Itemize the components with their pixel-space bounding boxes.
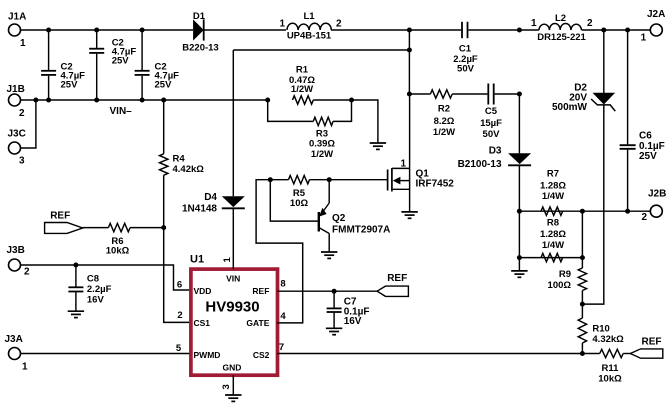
svg-text:J1B: J1B <box>7 84 25 95</box>
capacitor C6 0.1uF 25V <box>620 144 636 146</box>
node junction <box>407 48 412 53</box>
wire <box>519 29 539 31</box>
svg-text:2: 2 <box>177 310 182 321</box>
ground <box>401 211 417 213</box>
capacitor C2 (middle) 4.7uF 25V <box>96 30 98 48</box>
svg-text:1/2W: 1/2W <box>291 84 313 95</box>
svg-text:1/4W: 1/4W <box>542 191 564 202</box>
svg-text:25V: 25V <box>112 55 130 66</box>
capacitor C1 2.2uF 50V <box>461 22 463 38</box>
svg-text:J3A: J3A <box>5 334 23 345</box>
svg-text:DR125-221: DR125-221 <box>537 32 586 43</box>
node junction <box>580 209 585 214</box>
svg-text:1: 1 <box>22 362 28 373</box>
svg-text:5: 5 <box>176 343 182 354</box>
svg-text:VIN: VIN <box>226 274 240 284</box>
svg-text:25V: 25V <box>61 80 79 91</box>
svg-text:2: 2 <box>19 108 25 119</box>
resistor R9 100ohm <box>578 268 586 291</box>
node junction <box>625 28 630 33</box>
svg-text:R9: R9 <box>559 269 571 280</box>
svg-text:R11: R11 <box>602 363 620 374</box>
resistor R6 10kohm <box>108 223 130 231</box>
resistor R11 10kohm <box>582 353 599 355</box>
svg-text:U1: U1 <box>190 254 204 266</box>
wire <box>277 290 377 292</box>
svg-text:100Ω: 100Ω <box>548 280 572 291</box>
wire <box>232 375 234 395</box>
wire <box>519 257 582 259</box>
svg-text:PWMD: PWMD <box>194 350 221 360</box>
svg-text:1/2W: 1/2W <box>311 149 333 160</box>
svg-text:10Ω: 10Ω <box>290 198 309 209</box>
svg-text:10kΩ: 10kΩ <box>106 246 130 257</box>
op-amp U1 HV9930 body <box>191 269 278 375</box>
wire <box>581 211 583 268</box>
connector J2B pin 2 <box>650 205 662 217</box>
ground <box>511 270 527 272</box>
wire <box>232 50 234 196</box>
ground <box>68 310 84 312</box>
svg-text:50V: 50V <box>457 64 475 75</box>
svg-text:1.28Ω: 1.28Ω <box>540 181 566 192</box>
node junction <box>625 209 630 214</box>
svg-text:1: 1 <box>20 38 26 49</box>
svg-text:J2A: J2A <box>647 9 665 20</box>
wire <box>21 99 268 101</box>
wire <box>130 227 164 229</box>
svg-text:UP4B-151: UP4B-151 <box>287 31 332 42</box>
resistor R10 4.32kohm <box>581 304 583 318</box>
node junction <box>517 92 522 97</box>
svg-text:VIN–: VIN– <box>110 106 133 117</box>
svg-text:C1: C1 <box>459 44 472 55</box>
wire <box>21 353 190 355</box>
wire <box>21 265 190 290</box>
wire <box>83 227 109 229</box>
node junction <box>349 98 354 103</box>
wire <box>518 94 520 153</box>
svg-text:500mW: 500mW <box>552 102 588 113</box>
resistor R2 8.2ohm 1/2W <box>409 93 430 95</box>
svg-text:J1A: J1A <box>8 12 26 23</box>
connector J2A pin 1 <box>650 24 662 36</box>
ground <box>225 394 241 396</box>
svg-text:D4: D4 <box>204 192 217 203</box>
svg-text:HV9930: HV9930 <box>205 299 259 316</box>
svg-text:L1: L1 <box>303 11 315 22</box>
svg-text:REF: REF <box>642 336 662 347</box>
svg-text:R10: R10 <box>592 324 609 335</box>
svg-text:VDD: VDD <box>194 286 212 296</box>
node junction <box>73 263 78 268</box>
svg-text:1N4148: 1N4148 <box>182 204 217 215</box>
svg-text:IRF7452: IRF7452 <box>416 179 455 190</box>
diode D4 1N4148 <box>222 196 245 207</box>
svg-text:1/4W: 1/4W <box>542 240 564 251</box>
svg-text:1: 1 <box>641 32 647 43</box>
net REF flag <box>630 349 663 358</box>
node junction <box>407 28 412 33</box>
connector J3A pin 1 <box>9 348 21 360</box>
wire <box>331 29 461 31</box>
inductor L1 UP4B-151 <box>287 23 331 30</box>
svg-text:1: 1 <box>222 257 233 263</box>
wire <box>408 30 410 94</box>
svg-text:B220-13: B220-13 <box>182 43 218 54</box>
svg-text:1: 1 <box>400 159 406 170</box>
diode D3 B2100-13 <box>508 153 531 164</box>
svg-text:J3C: J3C <box>8 129 26 140</box>
wire <box>277 353 582 355</box>
connector J1A pin 1 <box>9 24 21 36</box>
resistor R8 1.28ohm 1/4W <box>541 253 563 261</box>
wire <box>313 100 378 143</box>
svg-text:CS2: CS2 <box>253 350 270 360</box>
node junction <box>161 98 166 103</box>
svg-text:1.28Ω: 1.28Ω <box>540 229 566 240</box>
svg-text:15µF: 15µF <box>480 118 502 129</box>
svg-text:1: 1 <box>279 19 285 30</box>
resistor R5 10ohm <box>289 176 310 184</box>
svg-text:2: 2 <box>336 19 342 30</box>
svg-text:2: 2 <box>24 267 30 278</box>
node junction <box>601 28 606 33</box>
wire <box>233 49 409 51</box>
net REF flag <box>377 286 408 296</box>
svg-text:2: 2 <box>641 212 647 223</box>
svg-text:REF: REF <box>50 211 70 222</box>
svg-text:16V: 16V <box>344 316 362 327</box>
capacitor C2 (right) 4.7uF 25V <box>141 30 143 70</box>
wire gate loop <box>256 180 303 323</box>
svg-text:R7: R7 <box>547 169 559 180</box>
inductor L2 DR125-221 <box>539 23 582 30</box>
wire <box>310 179 388 181</box>
ground <box>370 142 386 144</box>
transistor Q1 IRF7452 <box>387 170 389 191</box>
svg-text:25V: 25V <box>639 151 657 162</box>
wire <box>21 29 193 31</box>
node junction <box>94 28 99 33</box>
node junction <box>517 28 522 33</box>
svg-text:16V: 16V <box>87 295 105 306</box>
svg-text:10kΩ: 10kΩ <box>598 374 622 385</box>
resistor R7 1.28ohm 1/4W <box>541 207 563 215</box>
connector J3B pin 2 <box>9 259 21 271</box>
wire <box>603 30 605 94</box>
svg-text:6: 6 <box>177 280 182 291</box>
svg-text:B2100-13: B2100-13 <box>458 159 502 170</box>
svg-text:8.2Ω: 8.2Ω <box>434 116 455 127</box>
svg-text:GND: GND <box>223 363 242 373</box>
svg-text:D1: D1 <box>193 11 206 22</box>
capacitor C8 2.2uF 16V <box>75 265 77 287</box>
capacitor C2 (left) 4.7uF 25V <box>48 30 50 70</box>
node junction <box>517 209 522 214</box>
svg-text:1: 1 <box>531 18 537 29</box>
wire <box>627 30 629 144</box>
wire <box>518 166 520 271</box>
wire drain/source <box>409 94 411 212</box>
node junction <box>140 28 145 33</box>
svg-text:7: 7 <box>279 342 284 353</box>
node junction <box>46 28 51 33</box>
connector J1B pin 2 <box>9 94 21 106</box>
wire <box>582 29 651 31</box>
svg-text:REF: REF <box>252 286 269 296</box>
ground <box>321 251 337 253</box>
svg-text:CS1: CS1 <box>194 318 211 328</box>
wire <box>21 100 36 148</box>
transistor Q2 FMMT2907A <box>270 180 318 221</box>
node junction <box>327 177 332 182</box>
capacitor C7 0.1uF 16V <box>333 291 335 307</box>
svg-text:R4: R4 <box>173 154 186 165</box>
svg-text:R8: R8 <box>547 218 559 229</box>
svg-text:0.39Ω: 0.39Ω <box>309 139 335 150</box>
svg-text:L2: L2 <box>555 13 566 24</box>
resistor R3 0.39ohm 1/2W <box>268 100 314 121</box>
wire <box>582 105 603 304</box>
wire <box>204 29 286 31</box>
svg-text:1/2W: 1/2W <box>433 127 455 138</box>
svg-text:25V: 25V <box>155 80 173 91</box>
svg-text:2.2µF: 2.2µF <box>87 284 112 295</box>
svg-text:FMMT2907A: FMMT2907A <box>332 225 390 236</box>
node junction <box>268 177 273 182</box>
svg-text:50V: 50V <box>483 129 501 140</box>
svg-text:C5: C5 <box>485 106 498 117</box>
svg-text:3: 3 <box>221 384 232 389</box>
wire <box>519 210 650 212</box>
capacitor C5 15uF 50V <box>487 84 489 105</box>
svg-text:J3B: J3B <box>7 245 25 256</box>
resistor R1 0.47ohm 1/2W <box>293 96 314 104</box>
node junction <box>265 98 270 103</box>
svg-text:Q2: Q2 <box>332 213 346 224</box>
node junction <box>33 98 38 103</box>
net REF flag <box>45 223 83 234</box>
node junction <box>517 255 522 260</box>
wire cs1 riser <box>164 228 190 323</box>
svg-text:C6: C6 <box>639 131 652 142</box>
node junction <box>580 302 585 307</box>
ground <box>326 327 342 329</box>
zener diode D2 20V 500mW <box>593 93 616 105</box>
resistor R4 4.42kohm <box>163 100 165 154</box>
svg-text:8: 8 <box>280 279 285 290</box>
diode D1 B220-13 <box>193 19 204 40</box>
svg-text:4.42kΩ: 4.42kΩ <box>173 164 205 175</box>
svg-text:D3: D3 <box>489 146 502 157</box>
node junction <box>332 289 337 294</box>
connector J3C pin 3 <box>9 142 21 154</box>
node junction <box>580 351 585 356</box>
svg-text:REF: REF <box>387 273 407 284</box>
wire <box>232 209 234 270</box>
svg-text:4.32kΩ: 4.32kΩ <box>592 334 624 345</box>
svg-text:R2: R2 <box>438 104 450 115</box>
node junction <box>161 225 166 230</box>
svg-text:J2B: J2B <box>648 189 666 200</box>
svg-text:GATE: GATE <box>246 318 269 328</box>
svg-text:2: 2 <box>587 18 593 29</box>
svg-text:4: 4 <box>280 311 286 322</box>
svg-text:C8: C8 <box>87 274 99 285</box>
svg-text:3: 3 <box>19 156 25 167</box>
